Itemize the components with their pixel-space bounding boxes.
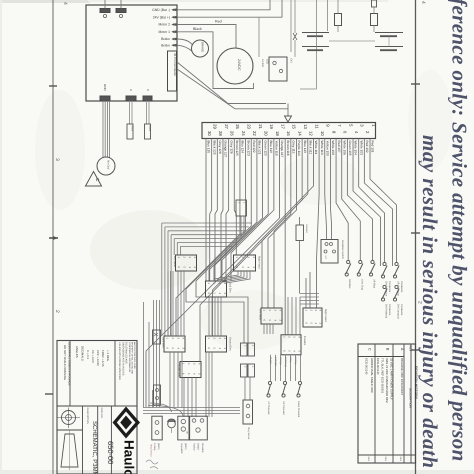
wire vertical x316 from top to y89	[316, 0, 318, 89]
svg-text:LED: LED	[266, 59, 269, 64]
wires A2 to B1 curve	[214, 271, 238, 281]
connector C1 Dual Elev	[164, 336, 185, 352]
svg-text:Ring Sensor: Ring Sensor	[150, 444, 153, 457]
svg-text:Red 101: Red 101	[371, 141, 375, 153]
wires to receiver R2	[146, 101, 148, 125]
svg-text:24V (Bat +): 24V (Bat +)	[153, 15, 170, 19]
terminal lug T1	[100, 9, 110, 13]
svg-text:Recv: Recv	[131, 126, 134, 132]
pencil scribble bottom left	[146, 460, 158, 469]
bus right mid horizontals	[300, 293, 319, 295]
wire White 104	[353, 139, 380, 267]
svg-text:Left Hand: Left Hand	[259, 309, 262, 320]
svg-text:Clockwise: Clockwise	[400, 304, 403, 316]
svg-text:Clockwise: Clockwise	[400, 281, 403, 293]
svg-text:Recv: Recv	[148, 126, 151, 132]
svg-text:DN Pedestal: DN Pedestal	[385, 304, 388, 318]
wire 24V Bat+ to top edge	[177, 0, 282, 17]
svg-text:Clockwise: Clockwise	[388, 304, 391, 316]
svg-text:21: 21	[258, 124, 263, 129]
svg-text:C#1: C#1	[290, 58, 293, 63]
motor ground bundle wires	[102, 101, 104, 158]
svg-text:Brown 123: Brown 123	[246, 141, 250, 156]
wire White 106	[342, 139, 361, 262]
svg-text:FRAC +-1/16: FRAC +-1/16	[101, 350, 105, 367]
wire Brown 116	[284, 139, 286, 335]
revision table header row line	[358, 356, 404, 358]
svg-text:14: 14	[297, 131, 302, 136]
wire Brown 125	[234, 139, 236, 256]
wires above pendant D1	[287, 297, 289, 335]
svg-text:Keyswitch: Keyswitch	[180, 443, 183, 454]
svg-text:24: 24	[241, 131, 246, 136]
svg-text:DWG NO.: DWG NO.	[100, 408, 103, 419]
pendant drop wires	[270, 355, 272, 381]
wires into B3 top	[309, 272, 311, 308]
haulotte diamond logo	[113, 407, 141, 439]
wire White 110	[317, 139, 320, 309]
svg-text:RELEASE; REF ECN-000007: RELEASE; REF ECN-000007	[400, 358, 404, 395]
receiver R2	[145, 124, 151, 139]
connector B3 Right Hand	[303, 308, 322, 327]
wire brake 2	[177, 45, 192, 51]
svg-text:18: 18	[275, 131, 280, 136]
wire White 103	[359, 139, 385, 264]
svg-text:Black 121: Black 121	[258, 141, 262, 155]
svg-text:Grey 115: Grey 115	[292, 141, 296, 154]
svg-text:REV: REV	[409, 346, 413, 352]
svg-text:reference only: Service attemp: reference only: Service attempt by unqua…	[448, 0, 472, 462]
svg-text:Blue 130: Blue 130	[207, 141, 211, 154]
svg-text:DN Contactor: DN Contactor	[397, 304, 400, 319]
wire vertical x291 top	[290, 0, 292, 52]
charger LED box	[269, 57, 287, 81]
small connector pair F1	[241, 343, 248, 356]
pedestal switch UP	[268, 381, 271, 384]
wire White 108	[330, 139, 331, 240]
svg-text:DESCRIPTION: DESCRIPTION	[86, 408, 89, 425]
receiver R1	[127, 124, 133, 139]
wires F boxes to plug detect	[244, 377, 246, 400]
bottom lug S1	[126, 96, 136, 101]
wire Yellow 109	[325, 139, 327, 240]
svg-text:19: 19	[269, 124, 274, 129]
svg-text:Red 122: Red 122	[252, 141, 256, 153]
wire Blue 119	[222, 139, 268, 282]
svg-text:SCHEMATIC, P3MM,: SCHEMATIC, P3MM,	[91, 421, 98, 474]
svg-text:Right Hand: Right Hand	[258, 256, 261, 269]
insulation switch box	[321, 240, 338, 264]
cone drawing	[61, 434, 78, 467]
svg-text:XX +-0.03: XX +-0.03	[91, 350, 95, 363]
svg-text:Left Hand: Left Hand	[173, 256, 176, 267]
wire Red 102	[364, 139, 392, 267]
svg-text:Ground Elev: Ground Elev	[229, 337, 232, 352]
svg-text:12: 12	[309, 131, 314, 136]
motor M1 24VDC	[217, 48, 253, 84]
wires left edge bottom	[143, 302, 145, 408]
svg-text:Grey 126: Grey 126	[229, 141, 233, 154]
cable run line 1	[177, 62, 286, 104]
svg-text:Limit Stop: Limit Stop	[360, 279, 363, 291]
svg-text:13: 13	[303, 124, 308, 129]
fuse F3 inline	[293, 33, 297, 40]
bus drop K1	[240, 216, 242, 239]
svg-text:Red 107: Red 107	[337, 141, 341, 153]
svg-text:White 103: White 103	[359, 141, 363, 156]
svg-text:Black 112: Black 112	[308, 141, 312, 155]
svg-text:30: 30	[207, 131, 212, 136]
wires B1 to C2	[208, 297, 210, 336]
wire Blue 124	[176, 139, 240, 337]
sheet border left	[52, 0, 54, 474]
wire Motor 2 red to motor top	[177, 25, 236, 49]
title block lower cells	[82, 406, 84, 474]
svg-text:Orange 117: Orange 117	[280, 141, 284, 158]
battery BT2 plates	[375, 32, 403, 34]
scan edge shading	[0, 0, 90, 3]
svg-text:Mtr Gnd: Mtr Gnd	[107, 160, 110, 170]
wire White 111	[213, 139, 314, 337]
svg-text:White 111: White 111	[314, 141, 318, 155]
limit switch GH Blue	[347, 260, 350, 263]
svg-text:26: 26	[230, 131, 235, 136]
estop switch	[152, 416, 162, 440]
svg-text:may result in serious injury o: may result in serious injury or death	[418, 135, 442, 469]
svg-text:Red: Red	[215, 20, 222, 24]
svg-text:GND: GND	[103, 84, 107, 92]
svg-text:Brake: Brake	[161, 43, 170, 47]
svg-text:White 108: White 108	[331, 141, 335, 156]
svg-text:27: 27	[224, 124, 229, 129]
svg-text:4: 4	[420, 1, 426, 4]
wire vertical x295 top	[294, 0, 296, 33]
motor ground lug circle	[97, 157, 115, 175]
svg-text:Purple 114: Purple 114	[297, 141, 301, 156]
revision table bottom row line	[358, 454, 416, 456]
bus harness staircase lines	[162, 222, 252, 224]
svg-text:650-00: 650-00	[106, 441, 115, 464]
limit switch GH Contactor	[383, 262, 386, 265]
wires to receiver R1	[129, 101, 131, 125]
svg-text:Grey 128: Grey 128	[218, 141, 222, 154]
svg-text:36 Pin Connector: 36 Pin Connector	[173, 53, 177, 76]
zone tick right y233	[411, 232, 420, 234]
wire Red 122	[196, 139, 251, 344]
bottom bus horizontals	[143, 407, 240, 409]
wire Green 105	[347, 139, 372, 262]
svg-text:MUST NOT BE DISCLOSED: MUST NOT BE DISCLOSED	[133, 342, 136, 369]
svg-text:DIMENSIONS ARE IN INCHES: DIMENSIONS ARE IN INCHES	[121, 342, 124, 376]
wire horizontal y89	[300, 88, 317, 90]
wire Orange 127	[221, 139, 223, 282]
zone tick left y86	[49, 85, 57, 87]
svg-text:1A Brkr: 1A Brkr	[261, 59, 264, 67]
svg-text:Motor 2: Motor 2	[159, 23, 171, 27]
svg-text:KJH: KJH	[367, 457, 370, 462]
limit switch UP Contactor	[395, 262, 398, 265]
svg-text:GH Blue: GH Blue	[348, 279, 351, 289]
svg-text:Green 105: Green 105	[348, 141, 352, 156]
svg-text:X +-0.1: X +-0.1	[86, 350, 90, 360]
svg-text:TTL BLK, REF ECO-000301: TTL BLK, REF ECO-000301	[381, 358, 385, 394]
connector J1 body	[202, 123, 376, 139]
svg-text:10: 10	[320, 131, 325, 136]
svg-text:Right Hand: Right Hand	[324, 309, 327, 322]
svg-text:Yellow 118: Yellow 118	[275, 141, 279, 156]
svg-text:Motor Pedestal: Motor Pedestal	[297, 401, 300, 418]
title block outer	[57, 341, 137, 474]
battery bus wire	[329, 40, 375, 42]
wire Grey 128	[215, 139, 217, 282]
svg-text:Blue 113: Blue 113	[303, 141, 307, 154]
wire brake 1	[177, 39, 193, 45]
svg-text:White 106: White 106	[342, 141, 346, 156]
pedestal switch DN	[283, 381, 286, 384]
title block tolerance cell lines	[57, 405, 137, 407]
wire Blue 113	[262, 139, 302, 309]
svg-text:Elevation: Elevation	[201, 443, 204, 454]
wire Motor 1 black to motor bottom	[177, 32, 254, 89]
wires C2 down to rocker	[205, 352, 207, 417]
svg-text:22: 22	[252, 131, 257, 136]
svg-text:Dual Elev: Dual Elev	[162, 337, 165, 348]
svg-text:28: 28	[218, 131, 223, 136]
svg-text:ECO-001240: ECO-001240	[376, 358, 380, 375]
cable drop arrow to J1	[287, 104, 289, 117]
wire vertical x259 from 24V line to LED box	[258, 17, 260, 57]
controller block U1	[86, 5, 177, 101]
svg-text:Brown 116: Brown 116	[286, 141, 290, 156]
wires below C1 to bus	[169, 352, 171, 408]
svg-text:Brown 125: Brown 125	[235, 141, 239, 156]
svg-text:DO NOT SCALE DRAWING: DO NOT SCALE DRAWING	[63, 345, 67, 380]
svg-text:16: 16	[286, 131, 291, 136]
battery BT2 link wire	[388, 36, 390, 46]
wire Black 129	[210, 139, 212, 282]
zone tick left y238	[49, 237, 58, 239]
keyswitch	[178, 416, 189, 440]
svg-text:Pendant: Pendant	[303, 336, 306, 346]
connector C2 Ground Elev	[206, 336, 227, 352]
svg-text:Yellow 109: Yellow 109	[325, 141, 329, 157]
resistor box	[296, 225, 304, 241]
svg-text:UNLESS OTHERWISE SPECIFIED: UNLESS OTHERWISE SPECIFIED	[118, 342, 121, 380]
bottom lug GND	[100, 96, 110, 101]
connector D1 Pendant	[281, 335, 301, 355]
sheet border right	[415, 0, 417, 474]
connector A2 Right Hand	[234, 255, 256, 271]
svg-text:33 VDC 1 AMP POWER SUPPLY: 33 VDC 1 AMP POWER SUPPLY	[390, 358, 394, 400]
wire Red 101	[370, 139, 397, 264]
projection symbol	[62, 411, 76, 425]
resistor feed wires	[299, 217, 301, 225]
svg-text:KJH: KJH	[384, 457, 387, 462]
svg-text:Blue 124: Blue 124	[241, 141, 245, 154]
svg-text:Resistor: Resistor	[305, 224, 308, 233]
svg-text:Black 129: Black 129	[212, 141, 216, 155]
svg-text:24VDC: 24VDC	[237, 59, 241, 71]
svg-text:Blue 119: Blue 119	[269, 141, 273, 154]
svg-text:Rocker: Rocker	[193, 443, 196, 451]
limit switch UP Blue	[371, 260, 374, 263]
bottom lug S2	[143, 96, 152, 101]
terminal lug T2	[116, 9, 126, 13]
svg-text:23: 23	[246, 124, 251, 129]
svg-text:11: 11	[314, 124, 319, 129]
wires E1 down to keyswitch	[183, 378, 185, 418]
revision table outer	[358, 344, 416, 463]
svg-text:UP: UP	[324, 256, 327, 260]
36 pin connector box on U1	[168, 51, 177, 91]
warning triangle C	[86, 172, 102, 187]
wire Green 120	[214, 139, 263, 282]
zone tick right y84	[411, 83, 420, 85]
svg-text:ANGLES: ANGLES	[75, 346, 79, 358]
svg-text:Black: Black	[193, 27, 202, 31]
fuse F2	[372, 0, 377, 7]
svg-text:3: 3	[54, 158, 60, 161]
svg-text:DECIMALS: DECIMALS	[81, 346, 85, 361]
connector B2 Left Hand	[261, 308, 282, 324]
connector B1 Dual Elev	[206, 281, 227, 297]
svg-text:Dual Elev: Dual Elev	[229, 282, 232, 293]
wire Black 112	[200, 139, 308, 362]
svg-text:DESCRIPTION: DESCRIPTION	[409, 388, 413, 408]
wire Grey 115	[274, 139, 291, 309]
svg-text:REVISION HISTORY: REVISION HISTORY	[414, 366, 418, 400]
limit switch DN Pedestal	[383, 285, 386, 288]
wire Purple 114	[268, 139, 296, 309]
plug detect box right	[153, 330, 161, 344]
svg-text:Insulation Switch: Insulation Switch	[341, 240, 344, 259]
svg-text:Brake: Brake	[161, 37, 170, 41]
svg-text:UP Blue: UP Blue	[373, 279, 376, 289]
svg-text:Motor 1: Motor 1	[159, 30, 171, 34]
sensor box right2	[154, 385, 161, 405]
svg-text:Orange 127: Orange 127	[224, 141, 228, 158]
svg-text:20: 20	[263, 131, 268, 136]
component K1 small box mid fan	[236, 200, 247, 216]
svg-text:S: S	[146, 89, 150, 91]
svg-text:Clockwise: Clockwise	[388, 281, 391, 293]
connector A1 Left Hand	[176, 255, 197, 271]
svg-text:Red 102: Red 102	[365, 141, 369, 153]
svg-text:+-1 DEG: +-1 DEG	[106, 350, 110, 361]
svg-text:XXX +-0.010: XXX +-0.010	[96, 350, 100, 366]
pedestal switch Lower	[298, 381, 301, 384]
svg-text:2: 2	[54, 310, 60, 313]
cable run line 2	[177, 69, 288, 109]
svg-text:S: S	[129, 89, 133, 91]
svg-text:TOLERANCES ARE:: TOLERANCES ARE:	[125, 342, 128, 365]
svg-text:4: 4	[62, 2, 68, 5]
wire Brown 123	[186, 139, 246, 344]
small connector pair F2	[241, 364, 248, 377]
zone tick left y394	[45, 393, 53, 395]
svg-text:ADDED DUAL CABLE; REF: ADDED DUAL CABLE; REF	[370, 358, 374, 393]
wire Grey 126	[226, 139, 229, 282]
wire Yellow 118	[231, 139, 274, 282]
svg-text:17: 17	[280, 124, 285, 129]
svg-text:GND (Bat -): GND (Bat -)	[152, 8, 170, 12]
svg-text:29: 29	[213, 124, 218, 129]
connector E1 Pendant Elev	[180, 362, 201, 378]
svg-text:UP Pedestal: UP Pedestal	[267, 401, 270, 415]
wire Black 121	[209, 139, 257, 282]
wire GND Bat- to top edge	[177, 0, 270, 10]
svg-text:DEBURR ALL EDGES & ROUNDS: DEBURR ALL EDGES & ROUNDS	[68, 342, 72, 386]
fuse F1	[337, 0, 339, 14]
wire Red 107	[336, 139, 348, 262]
svg-text:White 110: White 110	[320, 141, 324, 155]
svg-text:15: 15	[292, 124, 297, 129]
wire from T1 to top edge	[104, 0, 106, 9]
curved feed wires to keyswitch	[150, 403, 172, 412]
plug detect sensor	[243, 400, 253, 424]
limit switch Limit Stop	[359, 260, 362, 263]
svg-text:WAS 24 VDC CHARGER AND REV.: WAS 24 VDC CHARGER AND REV.	[385, 358, 389, 403]
wire Orange 117	[146, 139, 280, 408]
svg-text:Switch: Switch	[197, 443, 200, 451]
wires C boxes to bottom bus	[153, 300, 155, 407]
svg-text:Plug Sense: Plug Sense	[247, 427, 250, 440]
zone tick right y350	[411, 349, 420, 351]
wire Blue 130	[205, 139, 207, 282]
battery BT1 link wire	[316, 36, 318, 46]
limit switch DN Contactor	[395, 285, 398, 288]
wires A1 to C1	[167, 271, 169, 336]
svg-text:(B&R): (B&R)	[157, 443, 160, 450]
svg-text:(B&R): (B&R)	[184, 443, 187, 450]
wire vertical x327 top to battery	[327, 0, 329, 31]
wire from T2 to top edge	[120, 0, 122, 9]
battery BT1 plates	[302, 32, 329, 34]
svg-text:E-Stop: E-Stop	[153, 443, 156, 451]
svg-text:BRAKE: BRAKE	[201, 42, 205, 52]
svg-text:White 104: White 104	[354, 141, 358, 156]
wires B2 down	[263, 324, 265, 334]
brake coil B1	[192, 40, 209, 57]
svg-text:DN Pedestal: DN Pedestal	[282, 401, 285, 415]
revision table column lines	[374, 344, 376, 463]
svg-text:Green 120: Green 120	[263, 141, 267, 156]
buzzer	[168, 420, 176, 428]
svg-text:KJH: KJH	[399, 457, 402, 462]
svg-text:ECO-001240: ECO-001240	[365, 358, 369, 375]
svg-text:C: C	[368, 348, 372, 351]
svg-text:25: 25	[235, 124, 240, 129]
rocker switch	[190, 416, 208, 440]
svg-text:Haulo: Haulo	[122, 440, 137, 474]
